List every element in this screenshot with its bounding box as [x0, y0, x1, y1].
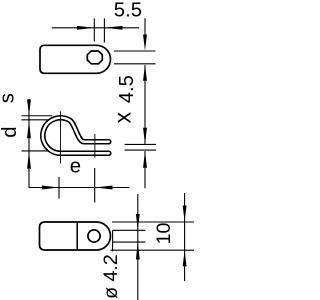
arrow right toward x=56.6	[42, 186, 59, 190]
arrow up toward y=242.1	[136, 242, 140, 259]
svg-text:d: d	[0, 127, 21, 138]
bottom view hole	[88, 230, 100, 242]
svg-text:10: 10	[153, 223, 175, 245]
arrow up toward y=64.3	[143, 64, 147, 80]
extension tick at hole right	[103, 18, 105, 42]
arrow up toward y=120.5	[27, 121, 31, 139]
P-clip strip: black body	[43, 118, 109, 153]
arrow down toward y=230.3	[136, 214, 140, 230]
svg-text:4.5: 4.5	[116, 75, 138, 103]
P-clip strip: white core	[43, 118, 109, 153]
svg-text:e: e	[70, 155, 81, 177]
top view outline	[40, 45, 110, 73]
dimension e	[29, 168, 130, 203]
arrow down toward y=144.4	[143, 128, 147, 144]
left column dimension line (s / d)	[22, 99, 53, 188]
bottom view divider line	[76, 222, 78, 250]
right column dimension line (4.5 / x)	[114, 18, 156, 188]
svg-text:s: s	[0, 93, 19, 103]
dimension 5.5 dim line	[52, 18, 139, 42]
arrow up toward y=150.1	[143, 151, 147, 168]
tab hole centerline	[94, 134, 96, 158]
dimension 10	[111, 193, 195, 281]
arrow down toward y=222	[183, 206, 187, 222]
extension tick at hole center	[93, 18, 95, 41]
arrow up toward y=250.2	[183, 250, 187, 266]
arrow left toward x=96.2	[95, 186, 112, 190]
arrow left toward x=104.4	[105, 26, 123, 30]
svg-text:ø 4.2: ø 4.2	[100, 254, 122, 299]
bottom view outline	[40, 222, 111, 250]
svg-text:x: x	[109, 111, 135, 123]
svg-text:5.5: 5.5	[114, 0, 142, 21]
arrow up toward y=150.2	[27, 151, 31, 168]
top view oblong hole	[87, 51, 102, 64]
arrow down toward y=51.5	[143, 35, 147, 51]
loop centerline	[60, 111, 62, 163]
arrow down toward y=115.2	[27, 100, 31, 116]
dimension o 4.2	[113, 194, 146, 300]
arrow right toward x=94.3	[77, 26, 94, 30]
